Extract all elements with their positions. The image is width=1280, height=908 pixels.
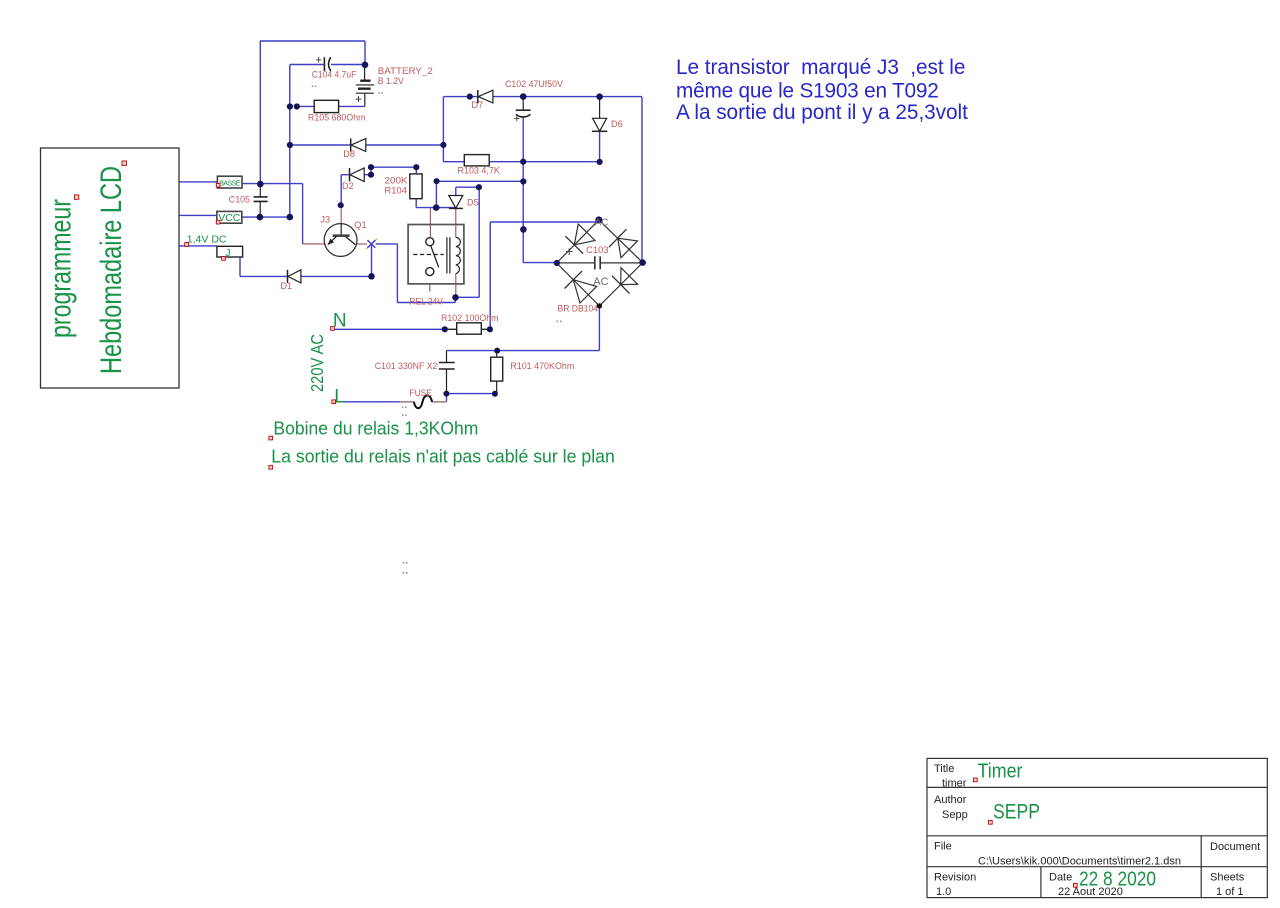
wire left vertical x260 [259,41,261,184]
capacitor C101 [439,351,455,394]
wire D2 left [341,175,348,206]
wire collector to relay [376,244,456,303]
svg-text:+: + [514,113,520,125]
resistor R102 leads [445,328,490,330]
wire N row [334,328,445,330]
wire vertical x443 [443,97,464,162]
junction dots [362,62,369,69]
wire vertical x290 [289,65,291,218]
svg-text:Title: Title [934,763,954,775]
pin square SEPP [989,821,993,825]
diode D1 [288,270,301,283]
svg-text:C:\Users\kik.000\Documents\tim: C:\Users\kik.000\Documents\timer2.1.dsn [978,855,1181,867]
capacitor C104 [316,55,331,72]
resistor R105 [314,100,338,112]
no-connect X mark [366,239,377,249]
svg-text:+: + [565,244,573,259]
wire R104 top row [371,167,416,174]
svg-text:Document: Document [1210,841,1260,853]
svg-text:220V AC: 220V AC [307,334,327,392]
svg-text:AC: AC [595,218,609,229]
svg-text:D6: D6 [611,119,623,129]
pin square LCD text 2 [74,195,78,199]
wire relay contact bottom stub red [429,276,431,292]
wire vertical x436.5 [435,181,437,207]
capacitor C102 [514,97,531,125]
resistor R103 [464,155,489,166]
diode D6 [592,97,607,132]
bridge rectifier BR DB104 [557,220,643,306]
wire row y181.4 [437,180,524,182]
svg-text:BR DB104: BR DB104 [558,304,599,314]
wire relay contact feed red [429,208,431,237]
svg-text:200K: 200K [385,175,409,185]
svg-text:BASSE: BASSE [219,180,240,187]
svg-text:D2: D2 [342,181,354,191]
svg-text:B 1.2V: B 1.2V [378,76,405,86]
svg-text:VCC: VCC [218,212,241,224]
svg-text:1,4V DC: 1,4V DC [187,234,227,246]
stray dot marks [312,86,314,88]
svg-text:REL 24V: REL 24V [409,297,443,307]
svg-text:J3: J3 [320,214,330,224]
wire R104 bottom lead [415,199,417,208]
wire bridge AC top row [490,221,598,223]
svg-text:D1: D1 [280,281,292,291]
svg-text:File: File [934,841,952,853]
svg-text:1 of 1: 1 of 1 [1216,886,1244,898]
bridge diode top-right [618,238,638,258]
svg-text:R102 100Ohm: R102 100Ohm [441,313,499,323]
svg-text:Sheets: Sheets [1210,872,1245,884]
wire fuse leads red [400,401,447,403]
wire coil top red [455,209,457,238]
svg-text:J: J [225,247,230,259]
wire C102 down vertical [523,118,557,263]
svg-text:Q1: Q1 [354,220,366,230]
svg-text:timer: timer [942,777,967,789]
port box BASSE [216,176,242,188]
svg-text:+: + [316,55,322,67]
svg-text:22 Aout 2020: 22 Aout 2020 [1058,886,1123,898]
port box J [217,246,243,260]
svg-text:Timer: Timer [978,760,1023,782]
wire R103 row [489,161,599,163]
svg-text:L: L [334,386,345,407]
wire stub LCD to BASSE [179,181,217,183]
svg-text:Sepp: Sepp [942,809,968,821]
svg-text:La sortie du relais n'ait pas: La sortie du relais n'ait pas cablé sur … [271,446,615,467]
pin square 1,4V DC [185,243,189,247]
svg-text:C101 330NF X2: C101 330NF X2 [375,361,438,371]
wire D7 row [443,97,642,263]
port box VCC [216,211,242,224]
wire stub LCD to J [179,245,217,247]
resistor R101 [491,357,503,381]
svg-text:AC: AC [593,276,608,288]
pin square Timer [974,778,978,782]
wire vertical x490 down to R102 [489,222,491,329]
fuse FUSE [414,395,432,408]
wire collector red [356,243,367,245]
svg-text:Hebdomadaire LCD: Hebdomadaire LCD [95,166,128,374]
wire BASSE row [242,183,303,185]
bridge diode bottom-left [573,280,596,303]
wire emitter red [303,243,325,245]
svg-text:D8: D8 [343,149,355,159]
svg-text:Date: Date [1049,872,1072,884]
svg-text:Author: Author [934,794,967,806]
svg-text:+: + [355,92,362,106]
svg-text:programmeur: programmeur [45,199,78,338]
svg-text:C105: C105 [229,195,250,205]
wire R105 row [297,105,365,107]
svg-text:D7: D7 [471,100,483,110]
wire coil bottom red [455,273,457,297]
svg-text:R104: R104 [385,185,408,195]
svg-text:R105 680Ohm: R105 680Ohm [308,112,366,122]
relay REL24V box [408,225,464,285]
svg-text:Revision: Revision [934,872,976,884]
bridge diode bottom-right [621,268,638,285]
bridge diode top-left [574,224,595,245]
wire VCC row [179,215,290,217]
pin square note 1 [269,436,273,440]
svg-text:A la sortie du pont il y a 25,: A la sortie du pont il y a 25,3volt [676,101,968,124]
wire C101 bottom row [447,394,497,402]
diode D8 [351,138,366,151]
svg-text:C102 47Uf50V: C102 47Uf50V [505,79,564,89]
wire top loop right vertical [364,41,366,65]
wire D6 bottom lead [599,132,601,162]
wire top loop horizontal [260,40,365,42]
title block table [927,758,1267,897]
wire bridge bottom to R101 row [447,306,600,351]
pin square L [332,400,336,404]
bridge corner nodes [595,216,602,223]
pin square note 2 [269,465,273,469]
svg-text:C104 4.7uF: C104 4.7uF [312,70,357,80]
svg-text:C103: C103 [586,245,609,255]
wire J box to D1 [240,257,287,276]
svg-text:1.0: 1.0 [936,886,951,898]
diode D2 [350,168,365,182]
resistor R101 leads [496,351,498,394]
wire base red [340,205,342,223]
diode D5 [449,196,463,209]
wire L row left [336,401,400,403]
svg-text:Bobine du relais 1,3KOhm: Bobine du relais 1,3KOhm [273,417,478,438]
battery BATTERY_2 B1.2V [355,65,374,107]
svg-text:BATTERY_2: BATTERY_2 [378,66,433,76]
resistor R104 [410,174,422,199]
wire emitter vertical x302.6 [302,184,304,244]
svg-text:FUSE: FUSE [409,388,432,398]
svg-text:même que le S1903 en T092: même que le S1903 en T092 [676,79,939,102]
capacitor C103 [557,262,643,264]
wire D8 row [290,144,444,146]
wire coil bottom to D5 loop [455,187,479,297]
pin square N [331,327,335,331]
capacitor C105 [254,184,268,217]
transistor Q1 [324,223,357,256]
svg-text:Le transistor marqué J3 ,est: Le transistor marqué J3 ,est le [676,56,965,79]
wire D2 right jog [364,167,371,175]
pin square LCD text 1 [122,161,126,165]
LCD programmer box [41,148,180,388]
svg-text:R101 470KOhm: R101 470KOhm [510,361,574,371]
wire D1 to collector node [301,244,372,277]
svg-text:N: N [333,310,347,331]
resistor R102 [457,323,482,334]
pin square Date [1074,884,1078,888]
wire C104 row [290,64,365,66]
diode D7 [478,90,493,103]
svg-text:SEPP: SEPP [993,801,1040,824]
svg-text:R103 4,7K: R103 4,7K [458,166,501,176]
wire row y207.6 to D5 [416,207,456,209]
svg-text:D5: D5 [467,197,479,207]
